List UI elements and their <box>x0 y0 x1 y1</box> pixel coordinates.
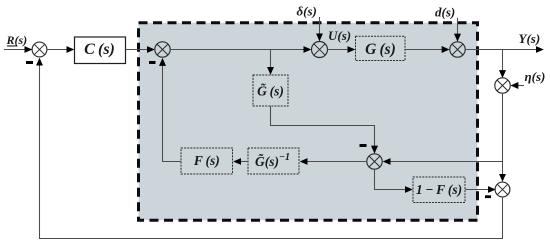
summing junction J6 <box>495 182 510 197</box>
node d(s) label <box>435 5 455 20</box>
svg-text:G̃ (s): G̃ (s) <box>257 84 284 99</box>
svg-text:δ(s): δ(s) <box>297 4 317 19</box>
svg-text:Y(s): Y(s) <box>519 31 541 46</box>
svg-text:U(s): U(s) <box>328 28 351 43</box>
summing junction J4 <box>450 42 465 57</box>
wire branch down into Ghat(s) <box>270 50 272 75</box>
wire delta(s) input <box>319 17 321 41</box>
wire branch left to J7 <box>384 161 503 163</box>
summing junction J2 <box>155 42 170 57</box>
wire J7 to Gtilde inverse <box>301 161 367 163</box>
svg-text:R(s): R(s) <box>6 33 28 47</box>
wire J3 to G(s) <box>328 49 355 51</box>
wire d(s) input <box>457 18 459 41</box>
wire 1-F(s) to J6 <box>465 189 495 191</box>
svg-text:η(s): η(s) <box>525 69 546 84</box>
wire J4 to Y(s) output <box>466 49 543 51</box>
block C(s) <box>75 37 126 64</box>
svg-text:G (s): G (s) <box>365 41 396 58</box>
block G(s) <box>356 36 406 60</box>
block Gtilde(s) inverse <box>248 148 299 174</box>
svg-text:C (s): C (s) <box>84 41 115 58</box>
wire J2 to J3 <box>170 49 310 51</box>
summing junction J7 <box>367 154 382 169</box>
wire J1 to C(s) <box>47 49 74 51</box>
wire G(s) to J4 <box>405 49 449 51</box>
wire Gtilde inverse to F(s) <box>234 161 248 163</box>
svg-text:F (s): F (s) <box>193 153 220 168</box>
node R(s) label <box>6 33 28 47</box>
wire Ghat(s) output to J7 <box>271 106 375 153</box>
svg-text:d(s): d(s) <box>435 5 455 20</box>
block Ghat(s) <box>253 75 288 106</box>
minus sign at J7 <box>360 144 367 147</box>
summing junction J5 <box>495 78 510 93</box>
node Y(s) label <box>519 31 541 46</box>
wire C(s) to J2 <box>126 49 155 51</box>
wire F(s) up to J2 <box>163 59 182 162</box>
wire R(s) input <box>4 49 32 51</box>
wire J6 feedback to J1 <box>40 59 503 239</box>
summing junction J3 <box>312 42 328 58</box>
node U(s) label <box>328 28 351 43</box>
block 1-F(s) <box>413 177 465 203</box>
summing junction J1 <box>32 42 47 57</box>
dashed internal-model box <box>139 23 478 221</box>
wire eta(s) input <box>511 85 524 87</box>
node delta(s) label <box>297 4 317 19</box>
svg-text:1 − F (s): 1 − F (s) <box>416 182 462 197</box>
minus sign at J2 <box>149 61 156 64</box>
block F(s) <box>181 148 233 174</box>
minus sign at J1 <box>26 61 33 64</box>
wire branch down to J5 <box>502 50 504 78</box>
wire J7 down to 1-F(s) <box>375 169 413 189</box>
wire J5 down to J6 <box>502 94 504 181</box>
minus sign at J6 <box>485 195 491 198</box>
node eta(s) label <box>525 69 546 84</box>
